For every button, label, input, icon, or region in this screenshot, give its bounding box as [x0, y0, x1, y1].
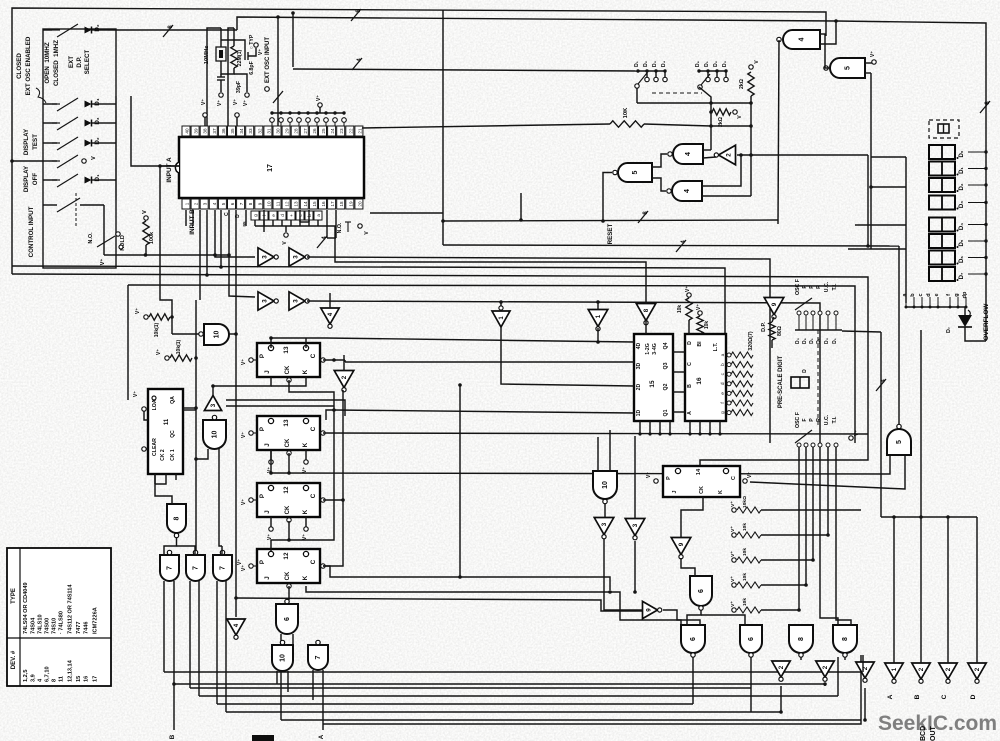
wire inv1 input up: [597, 302, 599, 310]
wire: [322, 670, 324, 730]
svg-text:31: 31: [266, 128, 271, 134]
IC U11 74LS90 body: [148, 389, 183, 474]
svg-text:SeekIC.com: SeekIC.com: [878, 712, 997, 735]
svg-text:C: C: [310, 426, 317, 431]
svg-text:K: K: [302, 575, 309, 580]
resistor 2k b: [712, 109, 731, 115]
inverter U2d: [816, 661, 834, 677]
wire ladder line 3: [761, 559, 813, 561]
terminal bank1: [663, 77, 667, 81]
terminal V+: [269, 460, 273, 464]
inverter U3c: [258, 292, 274, 310]
wire: [177, 546, 196, 555]
svg-text:D₂: D₂: [959, 183, 965, 190]
svg-text:CK 2: CK 2: [160, 449, 166, 461]
svg-text:V: V: [142, 210, 148, 214]
svg-text:P: P: [259, 560, 266, 564]
wire segment bus: [906, 306, 966, 308]
NAND U4b: [672, 181, 702, 201]
wire feed above 13b: [226, 400, 345, 416]
svg-text:g: g: [954, 293, 960, 296]
wire 10a out: [229, 333, 236, 335]
wire inv2d out down: [824, 684, 826, 686]
svg-text:14: 14: [696, 468, 702, 475]
junction: [10, 159, 14, 163]
wire stub: [299, 220, 301, 226]
wire top border into gate U4c: [12, 8, 826, 274]
wire: [108, 103, 116, 105]
svg-text:9: 9: [771, 302, 778, 306]
svg-text:V⁺: V⁺: [99, 259, 106, 266]
svg-text:34: 34: [239, 128, 244, 134]
svg-text:J: J: [264, 370, 271, 374]
wire 2k chain vertical: [750, 103, 752, 196]
wire bus bottom 8: [323, 655, 861, 724]
svg-text:L.T.: L.T.: [713, 342, 719, 351]
svg-text:C: C: [224, 212, 230, 216]
junction: [688, 432, 691, 435]
wire drop 868: [867, 155, 869, 246]
NAND U6c: [681, 625, 705, 653]
svg-text:CK: CK: [699, 486, 705, 494]
svg-text:8: 8: [842, 637, 849, 641]
NAND U8a: [167, 504, 186, 533]
wire: [92, 103, 108, 105]
wire feed above 13b 2: [226, 405, 334, 407]
svg-text:320Ω(7): 320Ω(7): [748, 331, 754, 350]
wire: [195, 300, 197, 358]
svg-text:T.I.: T.I.: [832, 283, 838, 290]
terminal V+ above pins: [318, 103, 322, 107]
wire: [645, 320, 647, 334]
wire RESET line: [443, 220, 778, 221]
wire bus bottom 5: [217, 703, 693, 705]
svg-text:J: J: [264, 443, 271, 447]
svg-text:TYPE: TYPE: [11, 588, 17, 604]
switch: [57, 174, 78, 187]
wire: [144, 411, 148, 420]
wire: [160, 165, 179, 167]
svg-text:C: C: [310, 353, 317, 358]
wire inv2b out vertical: [342, 390, 344, 500]
capacitor 39pF: [217, 76, 225, 78]
terminal V+: [743, 479, 747, 483]
wire bus bottom 4: [199, 695, 838, 697]
svg-text:INPUT A: INPUT A: [166, 157, 173, 183]
svg-text:6: 6: [690, 637, 697, 641]
crystal Y1: [216, 47, 226, 61]
wire line y262 to inv8c: [318, 226, 646, 304]
wire: [43, 122, 57, 124]
svg-text:74S112 OR 74S114: 74S112 OR 74S114: [68, 584, 74, 634]
svg-text:U.C.: U.C.: [824, 414, 830, 425]
svg-text:R: R: [816, 418, 822, 422]
wire line to 9c: [236, 598, 643, 611]
input bubble U1c: [499, 306, 503, 310]
svg-text:OSC F: OSC F: [795, 279, 801, 295]
svg-text:d: d: [720, 382, 726, 385]
CK pin of flip-flop U13a: [287, 378, 291, 382]
wire to B inverter: [920, 517, 922, 663]
svg-text:100k: 100k: [149, 231, 155, 244]
svg-text:32: 32: [257, 128, 262, 134]
wire mid drop 881: [880, 332, 882, 517]
svg-text:D₇: D₇: [946, 327, 952, 333]
svg-text:T.I.: T.I.: [832, 416, 838, 423]
svg-text:J: J: [264, 510, 271, 514]
wire: [198, 581, 200, 696]
junction: [826, 533, 830, 537]
wire bus bottom 3: [190, 687, 751, 689]
junction: [458, 575, 462, 579]
svg-text:22: 22: [348, 128, 353, 134]
wire 10K feed: [362, 124, 610, 128]
svg-text:V⁺: V⁺: [258, 49, 264, 55]
diode D&#8322;: [85, 140, 92, 147]
svg-text:9: 9: [678, 542, 685, 546]
wire display feed to segment bus: [905, 157, 907, 303]
svg-text:D₇: D₇: [959, 272, 965, 279]
svg-text:V⁺: V⁺: [267, 534, 273, 540]
NAND U10c: [272, 645, 293, 671]
svg-text:10k: 10k: [742, 523, 748, 531]
terminal switch arm: [635, 84, 639, 88]
wire: [343, 355, 345, 371]
wire: [185, 210, 187, 226]
junction: [804, 583, 808, 587]
NAND U6b: [690, 576, 712, 606]
resistor 10k(1) a: [149, 314, 170, 320]
wire band line 2 right: [307, 257, 770, 443]
switch: [57, 137, 78, 150]
wire: [270, 517, 272, 527]
svg-text:3-4G: 3-4G: [652, 343, 658, 355]
svg-text:F: F: [802, 418, 808, 421]
wire xtal2 to pin: [228, 28, 234, 126]
svg-text:V⁺: V⁺: [302, 534, 308, 540]
svg-text:13: 13: [283, 419, 290, 427]
wire J 13a line: [213, 377, 271, 386]
svg-text:8: 8: [174, 516, 181, 520]
wire: [145, 245, 147, 255]
wire IC16 bottom stub: [719, 421, 721, 434]
wire: [276, 671, 278, 684]
terminal V+: [245, 93, 249, 97]
junction: [458, 383, 462, 387]
wire digit to right rail: [968, 184, 986, 186]
svg-text:V⁺: V⁺: [302, 467, 308, 473]
wire display off feed: [12, 160, 43, 162]
terminal aux pin: [315, 118, 320, 123]
svg-text:6: 6: [284, 617, 291, 621]
svg-text:21: 21: [357, 128, 362, 134]
svg-text:4: 4: [212, 202, 217, 205]
svg-text:16: 16: [321, 201, 326, 207]
wire: [299, 210, 301, 222]
wire x334 vertical to FF12b: [271, 410, 334, 551]
wire: [285, 226, 287, 232]
wire digit to right rail: [968, 168, 986, 170]
svg-text:8: 8: [798, 637, 805, 641]
svg-text:dp: dp: [962, 291, 968, 298]
wire to 3D: [345, 361, 634, 363]
svg-text:A: A: [687, 411, 693, 415]
svg-text:P: P: [809, 418, 815, 422]
svg-text:· 74LS80: · 74LS80: [59, 611, 65, 634]
terminal: [358, 224, 362, 228]
wire bus bottom 6: [226, 711, 781, 713]
svg-text:D₀: D₀: [795, 338, 801, 344]
terminal: [119, 245, 123, 249]
diode D&#8321;: [85, 177, 92, 184]
junction: [797, 608, 801, 612]
inverter U8c: [636, 304, 656, 321]
CK pin of flip-flop U12a: [287, 518, 291, 522]
junction bank2: [697, 69, 700, 72]
wire pin drop to inverter pair 1: [215, 210, 255, 257]
junction: [205, 273, 209, 277]
svg-text:6.8pF: 6.8pF: [249, 61, 255, 75]
wire inv2e out down: [864, 688, 866, 720]
wire: [234, 40, 245, 52]
inverter U3e: [204, 396, 221, 411]
svg-text:D₄: D₄: [661, 60, 667, 67]
wire bank1 arm drop: [636, 88, 638, 103]
terminal bank1: [645, 77, 649, 81]
svg-text:74S00: 74S00: [45, 618, 51, 634]
junction bank1: [645, 69, 648, 72]
wire: [220, 210, 222, 266]
junction: [709, 124, 713, 128]
svg-text:1-2G: 1-2G: [645, 343, 651, 355]
svg-text:DISPLAY: DISPLAY: [23, 165, 30, 192]
junction: [144, 253, 148, 257]
wire: [221, 68, 234, 74]
svg-text:D₁: D₁: [704, 61, 710, 67]
svg-text:29: 29: [285, 128, 290, 134]
svg-text:CK: CK: [285, 505, 291, 514]
svg-text:2: 2: [945, 667, 952, 671]
junction: [341, 498, 345, 502]
resistor 320ohm segment c: [731, 371, 753, 377]
inverter U1a: [588, 310, 608, 327]
svg-text:D₄: D₄: [959, 223, 965, 230]
wire bank1 tap line: [638, 70, 665, 72]
terminal V+: [654, 479, 658, 483]
svg-text:V⁺: V⁺: [854, 430, 860, 436]
svg-text:33: 33: [248, 128, 253, 134]
svg-text:B: B: [687, 384, 693, 388]
svg-text:3: 3: [203, 202, 208, 205]
wire 4b in1: [702, 155, 741, 186]
junction: [269, 471, 273, 475]
svg-text:B: B: [914, 694, 921, 699]
wire: [270, 450, 272, 460]
wire: [43, 204, 57, 206]
svg-text:D₃: D₃: [722, 60, 728, 67]
wire: [245, 210, 247, 226]
svg-text:V⁺: V⁺: [730, 601, 736, 607]
switch: [57, 117, 78, 130]
terminal V+: [872, 60, 876, 64]
svg-text:R: R: [816, 285, 822, 289]
junction: [739, 153, 743, 157]
terminal V+: [732, 533, 736, 537]
svg-text:22M(1): 22M(1): [237, 50, 243, 67]
wire: [673, 371, 685, 373]
junction: [648, 432, 651, 435]
wire: [43, 103, 57, 105]
wire 7a in1: [163, 581, 165, 672]
NAND U8b: [789, 625, 813, 653]
junction: [658, 432, 661, 435]
svg-text:D₅: D₅: [959, 239, 965, 246]
svg-text:40: 40: [185, 128, 190, 134]
svg-text:12: 12: [283, 486, 290, 494]
terminal V+: [732, 558, 736, 562]
wire digit to right rail: [968, 224, 986, 226]
wire inv2 input line right: [737, 154, 868, 156]
svg-text:a: a: [721, 353, 726, 356]
wire: [308, 210, 310, 222]
svg-text:BCD: BCD: [920, 726, 927, 741]
svg-text:A: A: [318, 734, 325, 739]
wire 4c input from top bus: [820, 21, 836, 44]
NAND U8c2: [833, 625, 857, 653]
slash /4 band1: [676, 240, 686, 252]
wire output rail y517: [881, 516, 977, 518]
wire 9c out to 6c: [663, 610, 700, 625]
control switch box: [43, 29, 116, 268]
svg-text:OUT: OUT: [930, 726, 937, 741]
wire 4a in2 from inv2: [703, 157, 716, 158]
terminal C right of flip-flop U13b: [321, 431, 325, 435]
wire band line 4: [12, 274, 868, 332]
open terminal: [82, 159, 86, 163]
junction: [519, 218, 523, 222]
svg-text:19: 19: [348, 201, 353, 207]
junction: [869, 185, 873, 189]
wire display feed vertical: [870, 157, 872, 249]
wire ext osc drop: [277, 17, 279, 126]
svg-text:b: b: [720, 363, 726, 366]
junction bank2: [706, 69, 709, 72]
NAND U10b: [203, 420, 226, 449]
svg-text:26: 26: [312, 128, 317, 134]
wire band line 1: [443, 245, 899, 246]
resistor 2k a: [748, 72, 754, 96]
wire: [305, 517, 307, 527]
wire Q13b to bus: [326, 410, 334, 420]
resistor 10k ladder 1: [737, 507, 761, 513]
wire CK14 down to inv9b: [681, 497, 703, 537]
svg-text:7: 7: [239, 202, 244, 205]
wire: [711, 111, 712, 113]
wire osc drop 6: [836, 447, 851, 625]
wire FF13a Q to 4D: [326, 338, 634, 342]
junction: [194, 457, 198, 461]
terminal V+ left of flip-flop U12a: [249, 498, 253, 502]
flip-flop U12a: [257, 483, 320, 517]
terminal C right of flip-flop U12a: [321, 498, 325, 502]
svg-text:14: 14: [303, 201, 308, 207]
slash 4 below IC17: [317, 236, 327, 248]
terminal V+: [304, 527, 308, 531]
wire J13b down: [270, 450, 272, 473]
svg-text:CK: CK: [285, 438, 291, 447]
svg-text:CLOSED 1MHZ: CLOSED 1MHZ: [53, 40, 60, 86]
junction aux pin: [315, 111, 318, 114]
wire: [92, 142, 108, 144]
wire 6d out down: [750, 657, 752, 712]
junction: [709, 110, 713, 114]
svg-text:10k: 10k: [742, 548, 748, 556]
terminal V+ left of flip-flop U13a: [249, 358, 253, 362]
wire: [305, 338, 307, 348]
inverter U9c: [643, 601, 658, 618]
terminal V+: [732, 608, 736, 612]
IC U16 decoder 7446 body: [685, 334, 726, 421]
terminal switch arm 2: [698, 85, 702, 89]
svg-text:P: P: [259, 427, 266, 431]
inverter U3g: [625, 519, 645, 536]
wire inv3f to inv9c: [604, 539, 643, 610]
svg-text:V⁺: V⁺: [133, 391, 139, 397]
wire: [146, 448, 148, 450]
wire: [597, 437, 599, 471]
IC U17 auxiliary pin bus: [272, 112, 344, 114]
switch: [57, 24, 78, 37]
svg-text:CLEAR: CLEAR: [152, 438, 158, 456]
wire: [326, 210, 328, 238]
junction: [441, 219, 445, 223]
7-segment digit D&#8324;: [929, 218, 955, 232]
wire hold line: [104, 254, 229, 256]
wire QA out: [183, 407, 196, 409]
wire K12b to 6c: [306, 586, 681, 625]
svg-text:36: 36: [221, 128, 226, 134]
wire left vertical x128: [127, 285, 129, 400]
svg-text:TEST: TEST: [32, 134, 39, 150]
7-segment digit D&#8322;: [929, 178, 955, 192]
svg-text:15: 15: [76, 676, 82, 682]
wire band line 3: [12, 266, 725, 334]
svg-text:DEV. #: DEV. #: [11, 650, 17, 669]
wire to A inverter: [893, 517, 895, 663]
svg-text:D₀: D₀: [959, 150, 965, 157]
NAND U7d: [308, 645, 328, 670]
junction: [779, 710, 783, 714]
junction: [601, 219, 605, 223]
inverter U9b: [671, 538, 691, 555]
wire riser x921: [920, 330, 922, 517]
svg-text:3: 3: [293, 299, 300, 303]
svg-text:3,9: 3,9: [31, 674, 37, 682]
junction: [984, 167, 987, 170]
svg-text:7: 7: [167, 566, 174, 570]
wire: [716, 71, 718, 77]
wire 5b in1 to V+: [865, 62, 872, 64]
wire: [108, 122, 116, 124]
svg-text:V⁺: V⁺: [201, 99, 207, 105]
wire: [234, 74, 247, 92]
resistor 320ohm segment d: [731, 381, 753, 387]
svg-text:f: f: [946, 294, 952, 296]
svg-text:3: 3: [632, 523, 639, 527]
svg-text:2kΩ: 2kΩ: [739, 79, 745, 89]
wire 6b out to 6c: [687, 610, 701, 625]
terminal aux pin: [306, 118, 311, 123]
